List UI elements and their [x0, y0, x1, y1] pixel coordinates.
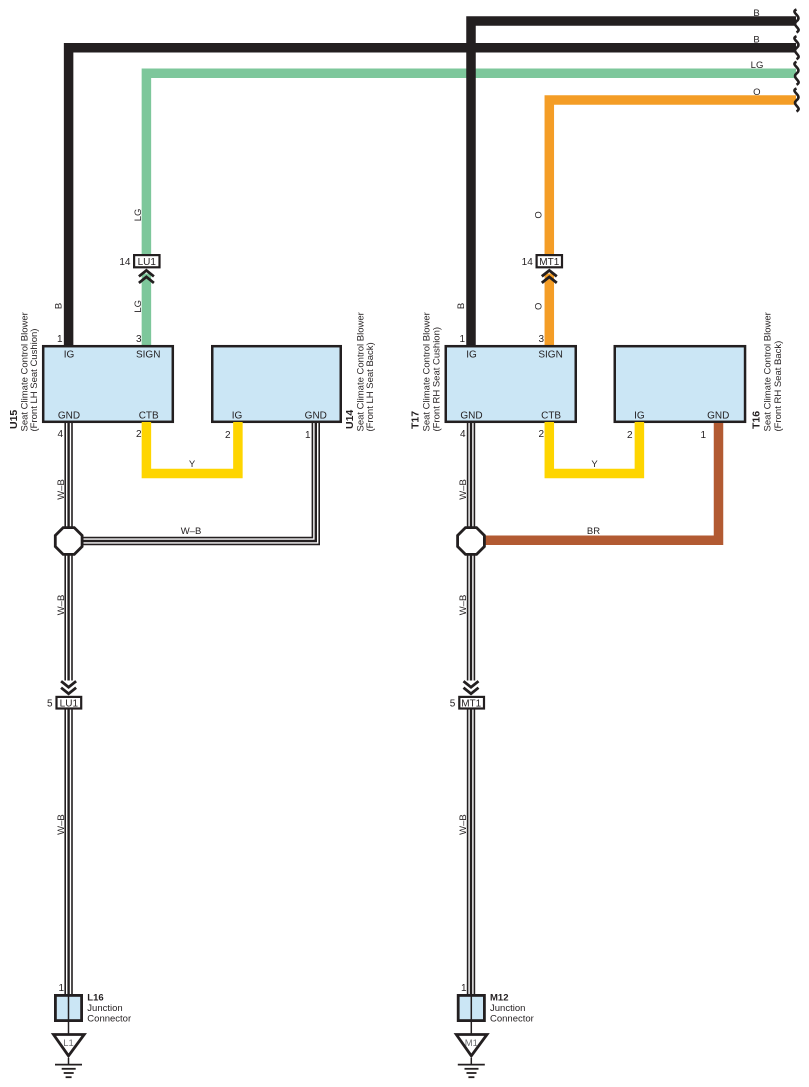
svg-text:CTB: CTB: [139, 411, 159, 422]
svg-text:(Front LH Seat Back): (Front LH Seat Back): [365, 342, 376, 431]
op U14 box Seat Climate Control Blower Front LH Seat Back: [212, 346, 341, 422]
connector MT1 pin5 box: [459, 697, 484, 709]
connector LU1 pin5 box: [57, 697, 82, 709]
svg-text:L16: L16: [87, 993, 103, 1004]
svg-text:LG: LG: [133, 209, 144, 222]
ground triangle L1: [54, 1035, 85, 1056]
svg-text:(Front LH Seat Cushion): (Front LH Seat Cushion): [29, 329, 40, 432]
svg-text:4: 4: [460, 429, 466, 440]
svg-text:MT1: MT1: [461, 698, 481, 709]
svg-text:4: 4: [57, 429, 63, 440]
wire W-B left octagon down to connector: [65, 554, 72, 681]
svg-text:Connector: Connector: [87, 1014, 131, 1025]
svg-text:L1: L1: [63, 1038, 74, 1049]
junction node right (octagon): [458, 528, 485, 555]
svg-text:2: 2: [538, 429, 544, 440]
svg-text:T17: T17: [410, 411, 422, 429]
svg-text:T16: T16: [751, 411, 763, 429]
svg-text:5: 5: [450, 699, 456, 710]
break symbol wire B2: [794, 36, 798, 59]
chevron arrows MT1 up: [542, 270, 557, 283]
svg-text:MT1: MT1: [539, 257, 559, 268]
svg-text:LU1: LU1: [138, 257, 157, 268]
svg-text:W–B: W–B: [56, 479, 67, 500]
svg-text:W–B: W–B: [56, 595, 67, 616]
svg-text:Y: Y: [591, 459, 598, 470]
svg-text:(Front RH Seat Cushion): (Front RH Seat Cushion): [432, 327, 443, 432]
wire LG horizontal+vertical (net SIGN LH): [146, 73, 796, 255]
svg-text:W–B: W–B: [458, 595, 469, 616]
svg-text:2: 2: [225, 430, 231, 441]
break symbol wire O: [794, 89, 798, 112]
wire L16 to ground triangle: [68, 1020, 70, 1034]
svg-text:3: 3: [136, 334, 142, 345]
chevron arrows LU1 down: [61, 681, 76, 694]
break symbol wire B1: [794, 10, 798, 33]
chevron arrows MT1 down: [464, 681, 479, 694]
op T17 box Seat Climate Control Blower Front RH Seat Cushion: [446, 346, 576, 422]
svg-text:1: 1: [461, 983, 467, 994]
connector MT1 pin14 box: [537, 255, 562, 267]
svg-text:Seat Climate Control Blower: Seat Climate Control Blower: [763, 312, 774, 431]
svg-text:(Front RH Seat Back): (Front RH Seat Back): [773, 341, 784, 432]
svg-text:Y: Y: [189, 459, 196, 470]
wire B top (to T17 pin 1): [471, 21, 796, 346]
wire LG lower segment into U15 pin 3: [142, 274, 152, 347]
svg-text:LG: LG: [751, 60, 764, 71]
svg-text:GND: GND: [460, 411, 482, 422]
svg-text:GND: GND: [305, 411, 327, 422]
ground symbol right: [458, 1058, 485, 1077]
ground symbol left: [55, 1058, 82, 1077]
svg-text:U15: U15: [8, 410, 20, 429]
svg-text:GND: GND: [707, 411, 729, 422]
svg-text:14: 14: [119, 257, 131, 268]
svg-text:1: 1: [459, 334, 465, 345]
svg-text:O: O: [534, 211, 545, 218]
break symbol wire LG: [794, 62, 798, 85]
wire Y right (T17 CTB to T16 IG): [549, 422, 639, 474]
wire BR T16 GND to junction (corner): [483, 423, 719, 540]
svg-text:W–B: W–B: [56, 814, 67, 835]
svg-text:2: 2: [627, 430, 633, 441]
svg-text:IG: IG: [634, 411, 645, 422]
svg-text:Junction: Junction: [490, 1003, 525, 1014]
svg-text:CTB: CTB: [541, 411, 561, 422]
op T16 box Seat Climate Control Blower Front RH Seat Back: [615, 346, 745, 422]
svg-text:GND: GND: [58, 411, 80, 422]
svg-text:1: 1: [58, 983, 64, 994]
svg-text:1: 1: [700, 430, 706, 441]
svg-text:B: B: [456, 303, 467, 309]
wire O horizontal+vertical (net SIGN RH): [549, 100, 796, 255]
junction node left (octagon): [55, 528, 82, 555]
wire M12 to ground triangle: [470, 1020, 472, 1034]
svg-text:1: 1: [57, 334, 63, 345]
svg-text:SIGN: SIGN: [538, 349, 562, 360]
svg-text:LG: LG: [133, 300, 144, 313]
wire Y left (U15 CTB to U14 IG): [146, 422, 238, 474]
wire W-B right octagon down to connector: [468, 554, 475, 681]
svg-text:1: 1: [305, 430, 311, 441]
svg-text:O: O: [753, 87, 760, 98]
svg-text:14: 14: [522, 257, 534, 268]
svg-text:O: O: [534, 303, 545, 310]
svg-text:IG: IG: [64, 349, 75, 360]
junction connector L16: [55, 995, 81, 1020]
svg-text:2: 2: [136, 429, 142, 440]
svg-text:LU1: LU1: [60, 698, 79, 709]
svg-text:SIGN: SIGN: [136, 349, 160, 360]
wire W-B U14 GND to junction (corner): [81, 423, 319, 544]
wire W-B U15 GND to junction: [65, 423, 72, 529]
junction connector M12: [458, 995, 484, 1020]
svg-text:3: 3: [538, 334, 544, 345]
svg-text:5: 5: [47, 699, 53, 710]
svg-text:W–B: W–B: [458, 479, 469, 500]
svg-text:Connector: Connector: [490, 1014, 534, 1025]
wire W-B right below MT1 to M12: [468, 710, 475, 997]
svg-text:Junction: Junction: [87, 1003, 122, 1014]
wire O lower segment into T17 pin 3: [545, 274, 555, 347]
wire W-B left below LU1 to L16: [65, 710, 72, 997]
ground triangle M1: [456, 1035, 487, 1056]
connector LU1 pin14 box: [134, 255, 159, 267]
svg-text:B: B: [753, 35, 759, 46]
wire B second (to U15 pin 1): [69, 48, 796, 346]
op U15 box Seat Climate Control Blower Front LH Seat Cushion: [43, 346, 173, 422]
svg-text:IG: IG: [466, 349, 477, 360]
wire W-B T17 GND to junction: [468, 423, 475, 529]
svg-text:IG: IG: [232, 411, 243, 422]
svg-text:U14: U14: [344, 410, 356, 429]
svg-text:W–B: W–B: [458, 814, 469, 835]
svg-text:B: B: [54, 303, 65, 309]
svg-text:W–B: W–B: [181, 526, 202, 537]
svg-text:M1: M1: [465, 1038, 478, 1049]
svg-text:M12: M12: [490, 993, 508, 1004]
svg-text:BR: BR: [587, 526, 600, 537]
chevron arrows LU1 up: [139, 270, 154, 283]
svg-text:B: B: [753, 8, 759, 19]
